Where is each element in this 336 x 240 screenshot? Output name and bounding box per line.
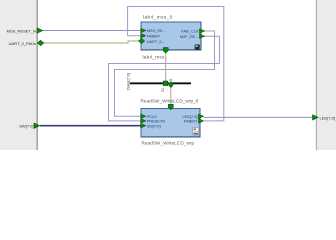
- svg-text:d5: d5: [169, 79, 173, 83]
- svg-text:LED[7:0]: LED[7:0]: [320, 115, 336, 120]
- svg-text:SW[7:0]: SW[7:0]: [147, 124, 161, 129]
- wire net FAB_CLK : U1 right pin to U2 PCLK: [115, 31, 215, 116]
- U1 pin M2F_RESET_N (output arrow right): [180, 34, 205, 39]
- port SW[7:0] (input, left edge): [19, 123, 40, 129]
- U1 pin UART_0 (bidir diamond): [138, 38, 164, 44]
- U1 pin FAB_CLK (output arrow right): [181, 29, 204, 34]
- block U1 lab4_mss_0: [141, 15, 201, 50]
- U2 icon (HDL file page icon bottom-right): [193, 128, 199, 135]
- wire net UART_0_PADs (port to U1 pin, olive): [43, 41, 141, 43]
- bus tap square (junction): [163, 81, 168, 86]
- svg-text:M2F_RE...: M2F_RE...: [180, 34, 199, 39]
- U2 pin LED[7:0] (output arrow right): [182, 114, 203, 119]
- port UART_0_PADs (bidir diamond, left edge): [9, 40, 44, 46]
- svg-text:FABINT: FABINT: [147, 33, 161, 38]
- svg-text:MSS_RESET_N: MSS_RESET_N: [7, 28, 36, 33]
- wire net FABINT loop : U2 FABINT output around top to U1 FABINT input: [128, 7, 224, 121]
- port LED[7:0] (output, right edge): [313, 115, 336, 121]
- wire net LED (U2 to right port): [204, 116, 314, 118]
- U2 component name ReadSW_WriteLCD_wrp: [142, 141, 195, 146]
- tiny slice label left of junction (rotated): [161, 88, 165, 92]
- svg-text:lab4_mss: lab4_mss: [143, 55, 165, 60]
- U2 pin PRESETN (input arrow): [141, 119, 166, 124]
- bus tap arrow down (junction to U2): [169, 83, 173, 88]
- left gray margin: [0, 0, 38, 150]
- svg-text:lab4_mss_0: lab4_mss_0: [143, 15, 173, 20]
- U1 pin FABINT (input arrow): [141, 33, 161, 38]
- svg-text:Data1[7:0]: Data1[7:0]: [126, 73, 130, 90]
- U1 bottom pin (pentagon down): [163, 48, 168, 54]
- U1 pin MSS_RESET_N (input arrow): [141, 28, 166, 33]
- wire pink lower segment (bus tap to U2 top pin): [170, 86, 172, 105]
- right gray margin: [316, 0, 336, 150]
- U2 top pin (pentagon down, input): [168, 104, 173, 110]
- svg-text:FAB_CLK: FAB_CLK: [181, 29, 198, 34]
- U1 component name lab4_mss: [143, 55, 165, 60]
- net label Data1[7:0] (rotated): [126, 73, 130, 90]
- U2 pin FABINT (output arrow right): [184, 119, 204, 124]
- wire net MSS_RESET_N (port to U1 pin): [42, 30, 141, 32]
- wire net SW (left port to U2): [40, 125, 141, 127]
- svg-text:SW[7:0]: SW[7:0]: [19, 124, 33, 129]
- tiny slice label right of junction (rotated): [169, 79, 173, 83]
- canvas background: [0, 0, 336, 150]
- svg-text:S1: S1: [161, 88, 165, 92]
- svg-text:UART_0...: UART_0...: [147, 39, 165, 44]
- svg-text:ReadSW_WriteLCD_wrp_0: ReadSW_WriteLCD_wrp_0: [141, 99, 199, 104]
- U2 pin SW[7:0] (input arrow, bus): [141, 123, 161, 128]
- svg-text:UART_0_PADs: UART_0_PADs: [9, 41, 36, 46]
- wire net M2F_RESET_N : U1 right pin to U2 PRESETN: [109, 36, 220, 121]
- bus Data1[7:0]: [130, 82, 191, 84]
- wire pink upper segment (U1 bottom pin to bus tap): [165, 53, 167, 83]
- svg-text:ReadSW_WriteLCD_wrp: ReadSW_WriteLCD_wrp: [142, 141, 195, 146]
- port MSS_RESET_N (input, left edge): [7, 28, 43, 34]
- U1 icon (dark chip icon bottom-right): [195, 45, 201, 51]
- U2 pin PCLK (input arrow): [141, 114, 158, 119]
- svg-text:FABINT: FABINT: [184, 119, 198, 124]
- block U2 ReadSW_WriteLCD_wrp_0: [141, 99, 201, 137]
